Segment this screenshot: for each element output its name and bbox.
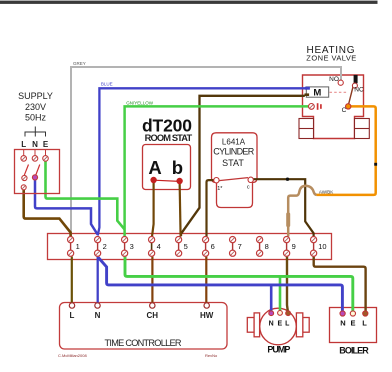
terminal 8 <box>257 237 269 257</box>
supply outgoing terminal L <box>21 185 26 190</box>
wire brown: terminal 6 to controller HW <box>205 257 207 303</box>
junction dot on cylinder stat c wire <box>286 178 289 181</box>
controller terminal CH <box>150 303 155 308</box>
svg-text:9: 9 <box>292 242 296 251</box>
label HEATING ZONE VALVE <box>306 45 356 63</box>
svg-text:1: 1 <box>76 242 80 251</box>
svg-text:50Hz: 50Hz <box>25 113 47 123</box>
valve NC end-stop mark <box>354 75 358 83</box>
svg-text:N: N <box>95 311 101 320</box>
svg-text:A: A <box>148 157 161 178</box>
wire brown: cylinder stat 1* to terminal 6 <box>207 180 214 236</box>
svg-text:N: N <box>340 319 345 328</box>
cylinder stat contact 1* <box>214 178 224 193</box>
valve earth symbol <box>318 103 321 110</box>
wire brown: valve motor to terminal 5 <box>181 96 305 236</box>
terminal 1 <box>68 237 80 257</box>
svg-text:ROOM STAT: ROOM STAT <box>145 133 193 143</box>
svg-text:3: 3 <box>130 242 134 251</box>
time controller body outline <box>60 303 228 350</box>
wire brown: terminal 10 to boiler L <box>314 257 366 313</box>
svg-text:GREY: GREY <box>73 61 86 66</box>
wire blue: supply N to terminal 2 <box>35 179 98 235</box>
valve earth terminal <box>309 104 315 110</box>
tan wire sleeve <box>286 213 290 228</box>
terminal 10 <box>311 237 327 257</box>
supply isolator box <box>15 150 60 194</box>
wire blue: pump N drop <box>270 285 273 313</box>
valve switch blade <box>349 83 354 104</box>
supply terminal N <box>32 156 38 162</box>
svg-text:CH: CH <box>147 311 159 320</box>
wire brown: cylinder stat c to terminal 10 <box>253 179 313 236</box>
svg-text:L: L <box>362 319 367 328</box>
svg-text:SUPPLY: SUPPLY <box>18 91 53 101</box>
svg-text:E: E <box>43 140 49 149</box>
valve motor-switch linkage (dashed) <box>330 91 348 93</box>
terminal 2 <box>95 237 107 257</box>
controller terminal HW <box>204 303 209 308</box>
svg-text:ZONE VALVE: ZONE VALVE <box>306 54 356 63</box>
svg-text:8: 8 <box>265 242 269 251</box>
pump body with mounting flanges <box>247 308 309 345</box>
svg-text:2: 2 <box>103 242 107 251</box>
wire brown: room stat b to terminal 5 <box>180 181 181 237</box>
boiler terminal L <box>363 311 368 316</box>
controller terminal L <box>69 303 74 308</box>
svg-text:GN/YELLOW: GN/YELLOW <box>126 100 154 105</box>
wire brown: terminal 4 to controller CH <box>151 257 153 303</box>
terminal 7 <box>230 237 242 257</box>
svg-text:N: N <box>269 321 274 328</box>
wire green: pump E drop <box>279 276 282 313</box>
valve contact NC <box>352 83 364 93</box>
wire brown: terminal 9 to pump L <box>287 257 288 314</box>
boiler pin labels N E L <box>340 319 367 328</box>
valve contact NO <box>329 76 343 85</box>
wire brown: room stat A to terminal 4 <box>152 180 154 237</box>
svg-text:E: E <box>350 319 355 328</box>
terminal 6 <box>203 237 215 257</box>
svg-text:L: L <box>285 321 290 328</box>
svg-text:NO: NO <box>329 76 339 83</box>
svg-text:c: c <box>247 185 250 191</box>
supply switch blade L <box>24 165 28 176</box>
wire blue: terminal 2 to controller N <box>97 257 99 304</box>
zone valve left pipe flange <box>299 119 314 139</box>
room stat terminal b <box>176 178 182 184</box>
svg-text:6: 6 <box>211 242 215 251</box>
svg-text:AW/BK: AW/BK <box>319 189 333 194</box>
supply terminal L <box>21 156 27 162</box>
svg-text:10: 10 <box>318 242 326 251</box>
boiler terminal N <box>340 311 345 316</box>
svg-text:E: E <box>277 321 282 328</box>
room stat terminal A <box>150 177 156 183</box>
svg-text:5: 5 <box>184 242 188 251</box>
wire tan: loop to terminal 9 with bridge over brown wire <box>288 186 316 237</box>
cylinder stat switch blade <box>219 178 248 181</box>
svg-text:L641A: L641A <box>222 138 246 147</box>
svg-text:M: M <box>313 87 321 98</box>
svg-text:CYLINDER: CYLINDER <box>213 147 254 157</box>
controller terminal N <box>95 303 100 308</box>
wire green earth bus: terminal 3 to boiler E <box>125 257 353 313</box>
svg-text:NC: NC <box>354 87 364 94</box>
boiler body outline <box>330 308 377 343</box>
svg-text:b: b <box>172 157 183 178</box>
wire blue: valve motor to terminal 2 <box>98 88 306 235</box>
label L641A CYLINDER STAT <box>213 138 254 169</box>
pump terminal N <box>269 311 274 316</box>
wire brown: terminal 1 to controller L <box>71 257 73 303</box>
valve contact C <box>342 104 351 114</box>
pump terminal L <box>286 311 291 316</box>
svg-text:C.McMillan2008: C.McMillan2008 <box>58 353 87 358</box>
terminal 4 <box>149 237 161 257</box>
wire grey: valve NO contact to terminal 1 <box>71 67 341 237</box>
room stat switch blade <box>154 180 179 181</box>
controller pin labels L N CH HW <box>70 311 214 320</box>
svg-text:PUMP: PUMP <box>267 344 290 354</box>
cylinder stat contact c <box>247 177 254 190</box>
svg-text:1*: 1* <box>217 186 223 192</box>
terminal 5 <box>176 237 188 257</box>
wire brown: supply L to terminal 1 <box>24 188 71 237</box>
terminal 3 <box>122 237 134 257</box>
wire orange: valve C contact loop <box>317 106 376 194</box>
supply switch blade N <box>36 165 40 176</box>
svg-text:RevNo: RevNo <box>205 353 218 358</box>
svg-text:L: L <box>21 140 26 149</box>
pump terminal E <box>278 311 283 316</box>
svg-text:BLUE: BLUE <box>101 82 113 87</box>
svg-text:7: 7 <box>238 242 242 251</box>
junction mark on orange wire <box>374 163 377 166</box>
zone valve body outline <box>303 75 364 139</box>
valve motor brown terminal <box>305 93 310 96</box>
boiler terminal E <box>350 311 355 316</box>
svg-text:TIME CONTROLLER: TIME CONTROLLER <box>105 338 182 348</box>
terminal 9 <box>284 237 296 257</box>
zone valve right pipe flange <box>355 119 370 139</box>
wire green: supply E to terminal 3 <box>46 160 125 230</box>
svg-text:STAT: STAT <box>222 158 244 168</box>
supply switch lower contact N <box>32 175 37 180</box>
supply terminal E <box>43 156 49 162</box>
svg-text:C: C <box>342 107 347 114</box>
svg-text:L: L <box>70 311 75 320</box>
supply switch lower contact L <box>22 175 27 180</box>
valve motor M <box>306 87 328 99</box>
wire green/yellow: valve earth to terminal 3 <box>125 106 309 236</box>
label SUPPLY 230V 50Hz <box>18 91 53 123</box>
supply cable symbol <box>25 127 46 137</box>
pump pin labels N E L <box>269 321 291 328</box>
svg-text:HW: HW <box>200 311 214 320</box>
wire blue neutral bus: terminal 2 to boiler N <box>98 258 342 313</box>
svg-text:BOILER: BOILER <box>339 346 369 356</box>
svg-text:4: 4 <box>157 242 161 251</box>
supply terminal stubs <box>24 150 46 156</box>
svg-text:N: N <box>32 140 38 149</box>
top border rule <box>0 1 378 4</box>
valve motor blue terminal <box>305 87 310 90</box>
room stat body outline <box>143 145 191 190</box>
cylinder stat body outline <box>212 133 258 208</box>
svg-text:230V: 230V <box>25 102 46 112</box>
terminal strip body <box>48 234 332 260</box>
